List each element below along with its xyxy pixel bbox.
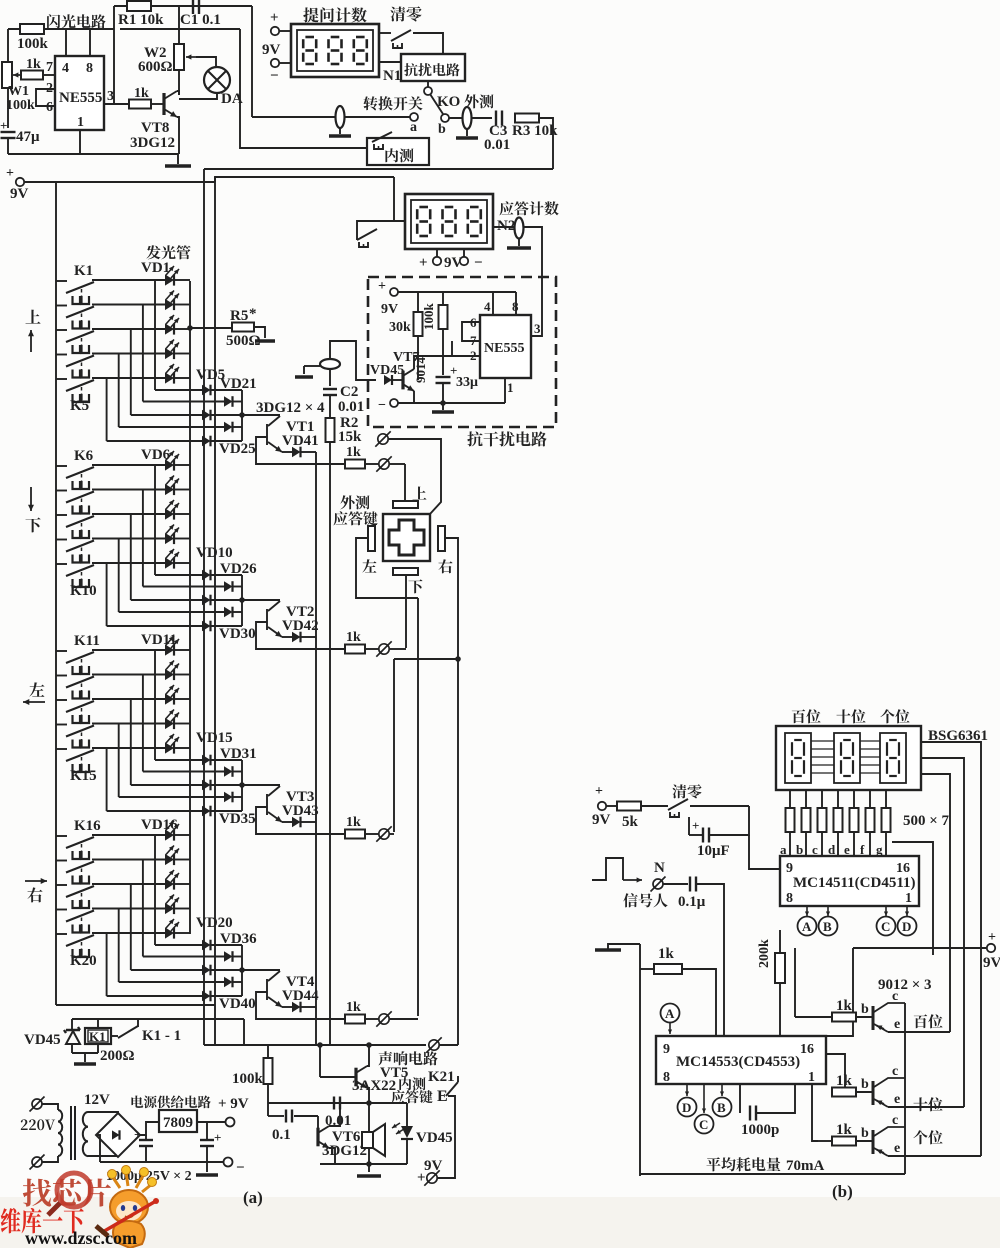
svg-text:(b): (b) — [832, 1182, 853, 1201]
wire switch row to LED — [92, 698, 165, 700]
svg-text:1k: 1k — [346, 630, 361, 645]
VT7 emitter wire — [413, 391, 415, 403]
sound bottom row — [320, 1163, 407, 1165]
watermark text 维库一下 — [1, 1208, 84, 1233]
diode row 1 — [202, 385, 211, 396]
resistor 1k to pin7 — [21, 71, 43, 80]
wire key to diode row — [154, 650, 156, 760]
svg-text:c: c — [892, 989, 898, 1004]
regulator 7809 — [159, 1110, 197, 1132]
svg-text:+: + — [378, 279, 386, 294]
diode row 3 — [202, 965, 211, 976]
diode row 5 — [202, 436, 211, 447]
clear switch 清零 — [390, 7, 405, 22]
svg-text:9V: 9V — [592, 812, 611, 828]
wire W2 wiper to DA — [196, 57, 216, 66]
contact a — [410, 113, 418, 121]
IC MC14553 — [656, 1036, 826, 1084]
svg-text:7809: 7809 — [163, 1115, 193, 1131]
wire right pad to VT3 row — [394, 538, 458, 659]
driver transistor ones — [812, 1084, 818, 1141]
svg-text:4: 4 — [484, 299, 491, 314]
wire emitter hook — [256, 807, 346, 834]
key switch K17 — [56, 860, 67, 862]
svg-text:R3 10k: R3 10k — [512, 123, 558, 139]
svg-text:D: D — [902, 919, 911, 934]
key switch K13 — [56, 699, 67, 701]
diode row 2 — [202, 956, 224, 958]
svg-text:9V: 9V — [262, 42, 281, 58]
key switch K7 — [56, 490, 67, 492]
transistor VT6 3DG12 — [317, 1116, 319, 1137]
svg-text:N: N — [654, 860, 665, 876]
svg-text:A: A — [665, 1006, 675, 1021]
wire from C1 drop to contact a — [252, 116, 410, 118]
anti-interference box N1 抗扰电路 — [401, 54, 465, 81]
svg-text:500 × 7: 500 × 7 — [903, 813, 950, 829]
svg-text:−: − — [378, 398, 386, 413]
LED VD12 — [165, 669, 174, 680]
bottom wire box — [398, 402, 505, 404]
LED VD19 — [165, 903, 174, 914]
LED VD45 sound — [406, 1103, 408, 1126]
svg-text:−: − — [236, 1160, 245, 1176]
driver transistor hundreds — [794, 948, 796, 1017]
key switch K11 — [56, 650, 67, 652]
svg-text:VD15: VD15 — [196, 730, 233, 746]
wire connector right — [390, 833, 394, 835]
resistor R2 15k — [329, 395, 331, 418]
svg-text:70mA: 70mA — [786, 1158, 824, 1174]
wire emitter hook — [256, 437, 346, 464]
svg-text:−: − — [270, 68, 279, 84]
potentiometer W1 100k — [2, 62, 12, 88]
LED VD6 — [165, 459, 174, 470]
IC MC14511 — [780, 856, 919, 906]
svg-text:N1: N1 — [383, 68, 401, 84]
svg-text:b: b — [438, 122, 446, 137]
svg-text:10μF: 10μF — [697, 843, 730, 859]
contact b — [441, 114, 449, 122]
resistor R3 10k — [515, 114, 539, 123]
key switch K12 — [56, 675, 67, 677]
diode VD41 — [282, 451, 292, 453]
wire VCC top-left — [8, 28, 114, 30]
cross key bottom pad — [393, 568, 418, 575]
cross key right pad — [438, 526, 445, 551]
ground 33u — [442, 403, 444, 410]
cluster right bus — [241, 390, 243, 441]
collector rail — [904, 1003, 906, 1174]
svg-text:VD10: VD10 — [196, 545, 233, 561]
capacitor 10uF — [688, 817, 690, 835]
wire 47u to bottom — [7, 138, 9, 154]
svg-text:200Ω: 200Ω — [100, 1048, 135, 1064]
svg-text:B: B — [823, 919, 832, 934]
key switch K18 — [56, 884, 67, 886]
svg-text:K1: K1 — [89, 1029, 106, 1044]
wire key to diode row — [154, 465, 156, 575]
filter cap 1 — [145, 1135, 147, 1139]
svg-text:e: e — [894, 1017, 900, 1032]
svg-text:+: + — [6, 166, 14, 181]
wire pin2-pin6 loop — [36, 89, 55, 106]
wire switch row to LED — [92, 377, 165, 379]
svg-text:VD41: VD41 — [282, 433, 319, 449]
svg-text:VD35: VD35 — [219, 811, 256, 827]
svg-text:*: * — [249, 306, 257, 322]
svg-text:9V: 9V — [424, 1158, 443, 1174]
connector answer — [379, 459, 389, 469]
wire switch row to LED — [92, 859, 165, 861]
connector answer — [379, 829, 389, 839]
svg-text:K11: K11 — [74, 633, 100, 649]
capacitor 0.01 sound — [333, 1097, 335, 1110]
svg-text:1: 1 — [507, 380, 514, 395]
long bus x203 down — [203, 169, 205, 1045]
wire switch row to LED — [92, 908, 165, 910]
svg-text:1000p: 1000p — [741, 1122, 779, 1138]
svg-text:K20: K20 — [70, 953, 97, 969]
VT6 emitter — [329, 1148, 335, 1164]
key switch K6 — [56, 465, 67, 467]
LED VD1 — [165, 274, 174, 285]
transformer secondary — [83, 1112, 88, 1127]
external test label 外测 — [464, 94, 478, 108]
connector answer — [379, 644, 389, 654]
svg-text:100k: 100k — [421, 303, 436, 331]
wire switch row to LED — [92, 279, 165, 281]
svg-text:16: 16 — [896, 861, 910, 876]
svg-text:1k: 1k — [134, 86, 149, 101]
svg-text:D: D — [682, 1100, 691, 1115]
svg-text:c: c — [892, 1113, 898, 1128]
svg-text:K6: K6 — [74, 448, 94, 464]
wire K1-1 to sound area — [137, 1019, 139, 1027]
svg-text:c: c — [812, 842, 818, 857]
transformer primary — [42, 1104, 58, 1110]
wire switch row to LED — [92, 489, 165, 491]
key switch K5 — [56, 378, 67, 380]
transistor VT5 — [354, 1068, 357, 1087]
svg-text:5k: 5k — [622, 814, 639, 830]
wire switch row to LED — [92, 328, 165, 330]
svg-text:g: g — [876, 842, 883, 857]
diode row 4 — [202, 426, 224, 428]
svg-text:0.1μ: 0.1μ — [678, 894, 706, 910]
diode VD44 — [282, 1006, 292, 1008]
wire key to diode row — [118, 539, 120, 613]
wire pin4 — [492, 292, 494, 315]
svg-text:+: + — [988, 930, 996, 945]
pin1 wire — [504, 378, 506, 403]
svg-text:12V: 12V — [84, 1092, 110, 1108]
ground b section — [595, 948, 621, 951]
svg-text:MC14553(CD4553): MC14553(CD4553) — [676, 1054, 800, 1070]
svg-text:3DG12: 3DG12 — [322, 1143, 367, 1159]
ground power — [206, 1162, 208, 1172]
outputs D B C circles — [686, 1084, 688, 1096]
svg-text:9: 9 — [663, 1042, 670, 1057]
svg-text:+: + — [0, 118, 7, 133]
VT5 base wire — [320, 1076, 356, 1078]
wire R3 to right bus — [539, 118, 553, 169]
bottom rail power — [100, 1161, 224, 1163]
wire switch row to LED — [92, 304, 165, 306]
diode row 4 — [202, 796, 224, 798]
svg-text:C2: C2 — [340, 384, 358, 400]
wire R1C1 top — [114, 5, 252, 7]
cluster right bus — [241, 575, 243, 626]
changeover switch KO 转换开关 — [363, 96, 377, 110]
wire key to diode row — [142, 490, 144, 587]
wire key to diode row — [118, 724, 120, 798]
ground flash circuit — [177, 154, 179, 164]
wire switch row to LED — [92, 932, 165, 934]
ground N2 — [518, 238, 520, 246]
wire key to diode row — [106, 933, 108, 996]
svg-text:VD42: VD42 — [282, 618, 319, 634]
svg-text:b: b — [861, 1002, 869, 1017]
feedthrough oval on wire a — [336, 106, 345, 128]
LED VD7 — [165, 484, 174, 495]
svg-text:3AX22: 3AX22 — [352, 1078, 396, 1094]
display BSG6361 — [776, 726, 921, 790]
display right wires — [921, 742, 981, 1156]
svg-text:R5: R5 — [230, 308, 248, 324]
VT5 emitter — [367, 1088, 369, 1103]
diode row 3 — [202, 410, 211, 421]
key matrix left bus — [55, 182, 57, 1005]
relay top row — [72, 1018, 244, 1020]
svg-text:VD25: VD25 — [219, 441, 256, 457]
resistor 1k answer — [345, 460, 365, 469]
filter cap 2 — [206, 1122, 208, 1139]
capacitor C1 0.1 — [192, 0, 194, 14]
wire key to diode row — [130, 884, 132, 970]
diode row 2 — [202, 771, 224, 773]
svg-text:e: e — [844, 842, 850, 857]
resistor 1k base VT8 — [129, 100, 151, 109]
svg-text:c: c — [892, 1064, 898, 1079]
wire rail to display2 switch — [393, 177, 395, 221]
svg-text:1k: 1k — [836, 998, 853, 1014]
svg-text:1: 1 — [77, 115, 84, 130]
LED VD9 — [165, 533, 174, 544]
svg-text:30k: 30k — [389, 320, 411, 335]
capacitor 33u — [442, 329, 444, 375]
svg-text:6: 6 — [46, 100, 53, 115]
diode VD42 — [282, 636, 292, 638]
svg-text:VD43: VD43 — [282, 803, 319, 819]
wire secondary to bridge — [88, 1112, 118, 1114]
svg-text:47μ: 47μ — [16, 129, 40, 145]
svg-text:R1 10k: R1 10k — [118, 12, 164, 28]
wire key to diode row — [154, 280, 156, 390]
ground under oval external — [466, 129, 468, 136]
wire oval to dashed box VD45 — [330, 341, 376, 380]
connector sound top — [369, 1044, 426, 1046]
key switch K20 — [56, 933, 67, 935]
svg-text:1k: 1k — [346, 815, 361, 830]
svg-text:(a): (a) — [243, 1188, 263, 1207]
wire switch row to LED — [92, 464, 165, 466]
svg-text:VD45: VD45 — [416, 1130, 453, 1146]
wire key to diode row — [142, 675, 144, 772]
svg-text:1k: 1k — [346, 1000, 361, 1015]
svg-text:VD45: VD45 — [370, 363, 404, 378]
svg-text:K21: K21 — [428, 1069, 455, 1085]
bottom wire flash circuit — [8, 153, 178, 155]
wire connector right — [390, 463, 405, 465]
wire connector right — [390, 648, 406, 650]
clear switch b 清零 — [672, 784, 686, 798]
30k bottom wire — [417, 336, 419, 380]
wire right pad bus down to sound — [457, 659, 459, 1045]
svg-text:VD44: VD44 — [282, 988, 319, 1004]
LED VD14 — [165, 718, 174, 729]
wire switch row to LED — [92, 538, 165, 540]
wire bottom pad to VT2 row — [405, 575, 407, 648]
wire switch row to LED — [92, 513, 165, 515]
direction label 右 — [25, 880, 47, 882]
cross key left pad — [368, 526, 375, 551]
svg-text:f: f — [860, 842, 865, 857]
capacitor C3 0.01 — [495, 111, 497, 126]
LED VD5 — [165, 372, 174, 383]
wire switch row to LED — [92, 747, 165, 749]
svg-text:9: 9 — [786, 861, 793, 876]
key switch K15 — [56, 748, 67, 750]
svg-text:A: A — [802, 919, 812, 934]
long bus 9V x215 — [214, 177, 216, 1045]
wire left pad to VT4 row — [356, 538, 418, 598]
watermark logo 找芯片 — [23, 1179, 51, 1207]
wire left bus flash — [7, 29, 9, 62]
bus R2 x330 — [329, 442, 331, 1045]
svg-text:a: a — [780, 842, 787, 857]
LED VD13 — [165, 693, 174, 704]
svg-text:1k: 1k — [658, 946, 675, 962]
svg-text:8: 8 — [86, 61, 93, 76]
cross key 上 pad — [412, 486, 426, 499]
capacitor 0.1u signal — [663, 883, 688, 885]
svg-text:0.01: 0.01 — [338, 399, 364, 415]
- terminal box — [390, 399, 398, 407]
svg-text:9V: 9V — [10, 186, 29, 202]
svg-text:b: b — [861, 1077, 869, 1092]
svg-text:3: 3 — [107, 89, 114, 104]
220V terminals — [32, 1099, 42, 1109]
oval N2 — [493, 226, 514, 228]
svg-text:VD40: VD40 — [219, 996, 256, 1012]
svg-text:3DG12: 3DG12 — [130, 135, 175, 151]
wire C2 top — [329, 369, 331, 386]
wire bus bottom corner — [56, 1004, 215, 1006]
capacitor 47u electrolytic — [1, 131, 16, 133]
IC U-NE555 flash oscillator — [55, 56, 104, 130]
LED cathode bus — [189, 281, 191, 934]
wire pin1 down — [79, 130, 81, 154]
mascot — [96, 1166, 159, 1249]
diode row 2 — [202, 586, 224, 588]
wire VT8 emitter to ground — [177, 117, 179, 154]
sound circuit labels — [378, 1051, 392, 1065]
transistor VT8 3DG12 — [162, 93, 165, 115]
bridge rectifier — [96, 1113, 140, 1157]
flash circuit label 闪光电路 — [47, 14, 60, 28]
cluster right bus — [241, 945, 243, 996]
svg-text:www.dzsc.com: www.dzsc.com — [25, 1228, 137, 1248]
svg-text:0.01: 0.01 — [484, 137, 510, 153]
svg-text:600Ω: 600Ω — [138, 59, 173, 75]
svg-text:16: 16 — [800, 1042, 814, 1057]
wire key to diode row — [130, 699, 132, 785]
svg-text:33μ: 33μ — [456, 375, 478, 390]
svg-text:e: e — [894, 1092, 900, 1107]
svg-text:K1: K1 — [74, 263, 93, 279]
wire VT8 collector — [177, 91, 179, 95]
BCD outputs A B C D — [806, 906, 808, 916]
svg-text:a: a — [410, 120, 417, 135]
vertical from top wire to pin3 row — [113, 6, 115, 104]
transformer core — [70, 1106, 72, 1160]
svg-text:4: 4 — [62, 61, 69, 76]
svg-text:KO: KO — [437, 94, 460, 110]
long bus y166 — [204, 168, 553, 170]
svg-text:e: e — [894, 1141, 900, 1156]
ground left of C2 — [304, 365, 320, 367]
svg-text:9014: 9014 — [413, 357, 428, 384]
display - terminal — [271, 59, 279, 67]
diode VD43 — [282, 821, 292, 823]
svg-text:1: 1 — [905, 891, 912, 906]
diode row 3 — [202, 595, 211, 606]
svg-text:+: + — [692, 818, 699, 833]
svg-text:K16: K16 — [74, 818, 101, 834]
svg-text:C: C — [699, 1117, 708, 1132]
wire pin8 up — [89, 29, 91, 56]
svg-text:8: 8 — [663, 1070, 670, 1085]
ground under oval — [339, 128, 341, 134]
9V rail — [24, 181, 215, 183]
svg-text:100k: 100k — [17, 36, 49, 52]
sound supply row — [204, 1044, 368, 1046]
resistor 1k answer — [345, 1015, 365, 1024]
wire switch row to LED — [92, 834, 165, 836]
wire top right drop — [251, 6, 253, 117]
svg-text:K10: K10 — [70, 583, 97, 599]
diode row 1 — [202, 570, 211, 581]
resistor R5* 500ohm — [187, 325, 193, 331]
LED VD10 — [165, 557, 174, 568]
svg-text:+: + — [417, 1170, 426, 1186]
svg-text:3DG12 × 4: 3DG12 × 4 — [256, 400, 325, 416]
lamp DA — [204, 67, 230, 93]
wire key to diode row — [142, 305, 144, 402]
svg-text:9V: 9V — [381, 302, 398, 317]
cross key box — [383, 514, 430, 561]
wire connector right — [390, 1018, 418, 1020]
svg-text:C1 0.1: C1 0.1 — [180, 12, 221, 28]
LED VD16 — [165, 829, 174, 840]
wire b to C3 — [449, 117, 492, 119]
LED VD3 — [165, 323, 174, 334]
LED VD20 — [165, 927, 174, 938]
wire key to diode row — [118, 354, 120, 428]
svg-text:1k: 1k — [346, 445, 361, 460]
switch common node — [427, 81, 429, 87]
